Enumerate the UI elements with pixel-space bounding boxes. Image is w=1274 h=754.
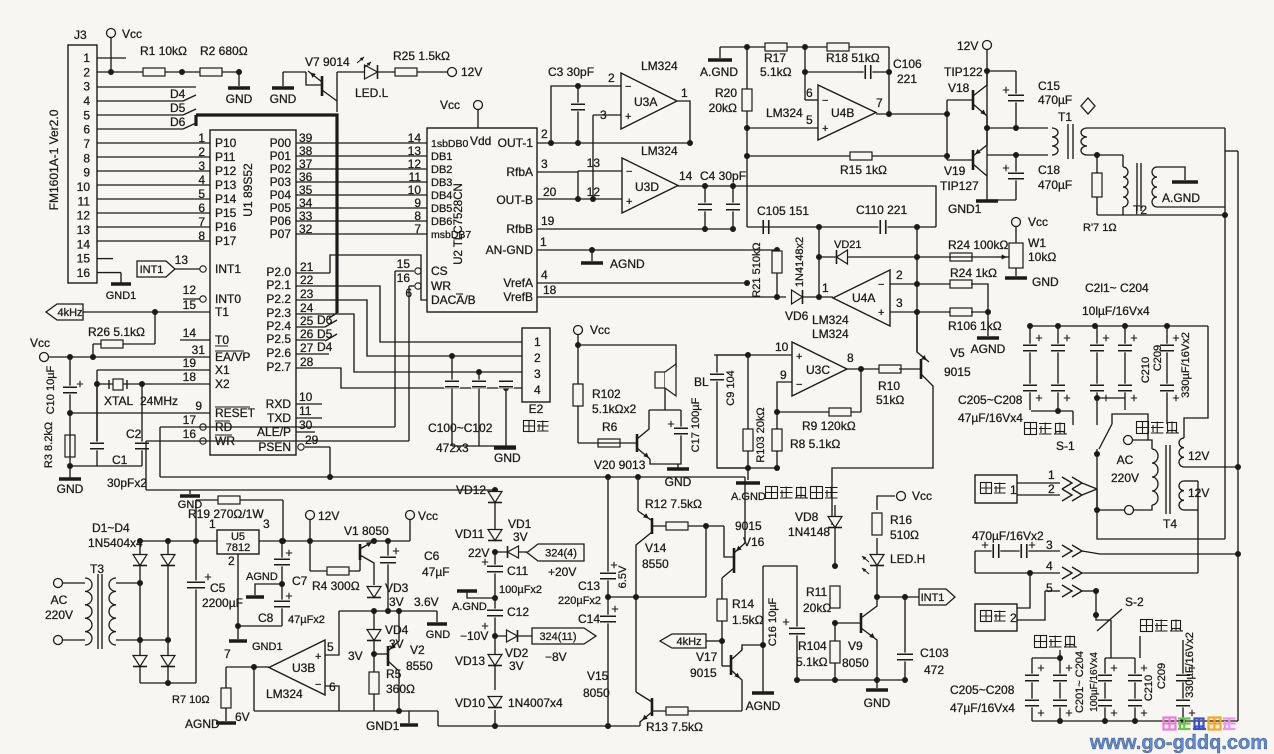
svg-text:GND: GND [226, 92, 253, 106]
ground GND (R3) [59, 477, 81, 481]
svg-text:4kHz: 4kHz [57, 307, 82, 319]
svg-text:1: 1 [822, 281, 829, 295]
label chassis note [766, 487, 778, 499]
svg-text:DB6: DB6 [431, 216, 452, 228]
flag 324(4) +20V [527, 544, 584, 561]
svg-text:6: 6 [806, 86, 813, 100]
svg-text:P05: P05 [270, 201, 292, 215]
capacitor C15 470uF [987, 70, 1016, 72]
svg-text:324(11): 324(11) [539, 631, 576, 643]
svg-text:24MHz: 24MHz [140, 394, 178, 408]
wire row5 to S-2 [1082, 590, 1096, 592]
chevron row5 [1062, 585, 1072, 597]
diode VD2 3V [495, 635, 532, 637]
svg-text:AC: AC [51, 593, 68, 607]
svg-text:20kΩ: 20kΩ [709, 101, 737, 115]
ground A.GND (T2) [1157, 167, 1185, 180]
resistor R25 1.5k [395, 68, 417, 76]
svg-text:R18 51kΩ: R18 51kΩ [826, 51, 880, 65]
svg-text:P2.4: P2.4 [266, 319, 291, 333]
connector electrode-1 [975, 475, 1017, 503]
svg-text:GND1: GND1 [948, 202, 982, 216]
wire WR link [408, 286, 410, 441]
svg-text:U4B: U4B [831, 106, 854, 120]
svg-text:U2 TLC7528CN: U2 TLC7528CN [453, 183, 465, 265]
svg-text:9015: 9015 [735, 519, 762, 533]
svg-text:+: + [796, 351, 802, 363]
transistor V7 9014 [306, 72, 322, 85]
svg-text:DB5: DB5 [431, 203, 452, 215]
wire right margin vertical B [1225, 150, 1238, 152]
wire BL top feed [578, 345, 676, 368]
svg-text:16: 16 [77, 266, 91, 280]
wire J3 pin15 pin16 [97, 258, 113, 260]
svg-text:V20 9013: V20 9013 [594, 458, 646, 472]
svg-text:10lµF/16Vx4: 10lµF/16Vx4 [1082, 304, 1150, 318]
diode VD6 [792, 290, 803, 304]
chevron row4 [1062, 567, 1072, 579]
wire V15 collector [635, 597, 637, 692]
wire rail 490 [146, 489, 495, 491]
ground GND (V9) [876, 680, 878, 688]
svg-text:A.GND: A.GND [452, 601, 487, 613]
label big-heat (lower) [1141, 620, 1153, 632]
svg-text:8: 8 [414, 209, 421, 223]
connector electrode-2 [975, 604, 1017, 631]
svg-text:18: 18 [543, 283, 557, 297]
svg-text:C103: C103 [920, 646, 949, 660]
svg-text:C205~C208: C205~C208 [950, 683, 1015, 697]
wire right margin vertical A [1224, 128, 1226, 539]
wire U3D output row [678, 186, 936, 227]
svg-text:15: 15 [183, 298, 197, 312]
wire electrode1 row2 [1017, 494, 1060, 496]
svg-text:X1: X1 [215, 363, 230, 377]
svg-text:5: 5 [83, 108, 90, 122]
resistor R106 1k [950, 308, 972, 316]
svg-text:C16 10µF: C16 10µF [767, 597, 779, 646]
svg-text:3V: 3V [389, 595, 404, 609]
svg-text:P10: P10 [215, 136, 237, 150]
capacitor C2 30pF [141, 384, 143, 466]
svg-text:14: 14 [679, 169, 693, 183]
svg-text:330µF/16Vx2: 330µF/16Vx2 [1184, 632, 1196, 698]
svg-text:CS: CS [431, 264, 448, 278]
capacitor C12 [494, 598, 496, 636]
svg-text:3V: 3V [509, 659, 524, 673]
svg-text:9015: 9015 [944, 365, 971, 379]
transistor V5 9015 [920, 359, 923, 379]
svg-text:47µF/16Vx4: 47µF/16Vx4 [950, 701, 1015, 715]
wire J3 pin2 net Vcc/R1/R2 [97, 71, 239, 73]
svg-text:5.1kΩ: 5.1kΩ [760, 65, 792, 79]
svg-text:P00: P00 [270, 136, 292, 150]
svg-text:D6: D6 [317, 313, 333, 327]
svg-text:AGND: AGND [971, 342, 1006, 356]
wire U4B output [876, 113, 947, 115]
svg-text:7: 7 [876, 96, 883, 110]
transistor V9 8050 [860, 613, 863, 633]
ground AGND (V17) [752, 691, 774, 695]
wire R17/R18 row [720, 46, 889, 48]
svg-text:2: 2 [83, 65, 90, 79]
svg-text:9015: 9015 [690, 666, 717, 680]
capacitor C13 220uFx2 [607, 477, 609, 726]
flag INT1 [137, 261, 175, 277]
resistor R20 20k [746, 47, 748, 227]
svg-text:31: 31 [192, 343, 206, 357]
svg-text:26: 26 [300, 327, 314, 341]
svg-text:R104: R104 [798, 639, 827, 653]
svg-text:C1: C1 [112, 453, 128, 467]
svg-text:14: 14 [183, 326, 197, 340]
svg-text:V9: V9 [848, 639, 863, 653]
svg-text:3: 3 [1046, 538, 1053, 552]
svg-text:360Ω: 360Ω [386, 682, 415, 696]
capacitor C9 104 [717, 355, 748, 468]
svg-text:1: 1 [681, 86, 688, 100]
chevrons electrode1 [1062, 477, 1072, 489]
wire P2.3 riser to keypad [296, 314, 522, 372]
svg-text:P12: P12 [215, 164, 237, 178]
svg-text:GND: GND [426, 629, 451, 641]
resistor R102 5.1kx2 [573, 384, 583, 406]
resistor R1 10k [143, 68, 165, 76]
capacitor C100 [449, 353, 455, 359]
svg-text:J3: J3 [74, 28, 87, 42]
svg-text:LM324: LM324 [812, 313, 849, 327]
wire X1 branch [96, 370, 98, 443]
svg-text:AC: AC [1117, 453, 1134, 467]
wire big-heat contact down [1139, 636, 1141, 658]
svg-text:T0: T0 [215, 333, 229, 347]
svg-text:P15: P15 [215, 206, 237, 220]
wire RD row [200, 426, 395, 428]
svg-text:C105 151: C105 151 [757, 204, 809, 218]
diamond symbol [1081, 98, 1095, 114]
svg-text:1: 1 [209, 517, 216, 531]
svg-text:4: 4 [1046, 559, 1053, 573]
svg-text:C6: C6 [424, 549, 440, 563]
svg-text:X2: X2 [215, 377, 230, 391]
wire RD rail riser [159, 427, 161, 477]
ground GND1 (V19) [987, 176, 1016, 200]
svg-text:100µFx2: 100µFx2 [499, 584, 542, 596]
svg-text:C210: C210 [1143, 675, 1155, 701]
svg-text:DB4: DB4 [431, 190, 452, 202]
svg-text:T4: T4 [1163, 517, 1177, 531]
svg-text:9: 9 [195, 399, 202, 413]
power Vcc (beeper) [574, 326, 583, 335]
wire P2.2 riser to keypad [296, 300, 522, 356]
svg-text:RXD: RXD [266, 397, 292, 411]
ground GND (3.6V) [436, 611, 438, 622]
svg-text:R24 1kΩ: R24 1kΩ [950, 266, 997, 280]
svg-text:Vcc: Vcc [122, 27, 142, 41]
svg-text:R20: R20 [715, 86, 737, 100]
svg-text:RfbA: RfbA [506, 165, 533, 179]
capacitor C106 221 [888, 47, 890, 114]
wire electrode1 row1 [1017, 482, 1060, 484]
svg-text:C2: C2 [126, 427, 142, 441]
svg-text:7: 7 [414, 222, 421, 236]
wire R8/R103 bottom rail [717, 467, 777, 469]
svg-text:R106 1kΩ: R106 1kΩ [948, 319, 1002, 333]
svg-text:VD1: VD1 [508, 517, 532, 531]
svg-text:29: 29 [305, 433, 319, 447]
power Vcc [107, 29, 116, 38]
svg-text:VD6: VD6 [785, 309, 809, 323]
svg-text:C106: C106 [893, 57, 922, 71]
wire V5 collector [832, 374, 933, 525]
capacitor C4 30pF x2 [704, 186, 706, 229]
wire T2 bottom to margin [1123, 214, 1225, 216]
svg-text:GND1: GND1 [366, 719, 400, 733]
svg-text:WR: WR [431, 279, 451, 293]
svg-text:7812: 7812 [226, 542, 250, 554]
svg-text:GND: GND [1032, 275, 1059, 289]
wire BL bottom [664, 388, 666, 410]
svg-text:LED.L: LED.L [355, 86, 389, 100]
svg-text:470µF: 470µF [1038, 178, 1072, 192]
ground GND1 (C8) [238, 625, 282, 627]
wire feedback vertical [916, 227, 918, 352]
op-amp U4A [833, 270, 890, 326]
wire 4kHz/R26 riser [152, 309, 158, 315]
svg-text:V15: V15 [587, 669, 609, 683]
svg-text:16: 16 [183, 427, 197, 441]
wire row4 riser [1197, 481, 1199, 573]
diode D4 [161, 656, 175, 667]
svg-text:R12 7.5kΩ: R12 7.5kΩ [645, 497, 702, 511]
svg-text:3.6V: 3.6V [414, 595, 439, 609]
svg-text:GND: GND [494, 451, 521, 465]
svg-text:1N5404x4: 1N5404x4 [88, 536, 143, 550]
svg-text:6.5V: 6.5V [617, 565, 629, 588]
svg-text:TXD: TXD [267, 411, 291, 425]
svg-text:R16: R16 [890, 513, 912, 527]
svg-text:VD13: VD13 [455, 654, 485, 668]
svg-text:C7: C7 [292, 574, 308, 588]
led LED.H [876, 538, 878, 597]
svg-text:TIP122: TIP122 [944, 65, 983, 79]
ground GND (V20) [650, 459, 678, 464]
svg-text:51kΩ: 51kΩ [876, 393, 904, 407]
wire RfbA to U3D pin13 [577, 171, 579, 200]
svg-text:msbDB7: msbDB7 [431, 229, 471, 241]
flag 324(11) -8V [532, 628, 596, 644]
wire J3 pin6 D6 [97, 128, 183, 130]
svg-text:14: 14 [408, 131, 422, 145]
svg-text:P2.3: P2.3 [266, 306, 291, 320]
wire T1 primary bottom [987, 154, 1048, 156]
wire U3B output [226, 666, 269, 668]
ground AGND (AN-GND) [589, 247, 595, 253]
svg-text:A.GND: A.GND [731, 491, 766, 503]
svg-text:U3C: U3C [806, 363, 830, 377]
wire bridge bottom rail [140, 682, 196, 684]
resistor R27 1ohm [1096, 155, 1098, 215]
wire row4 to T4 [1082, 572, 1198, 574]
svg-text:A.GND: A.GND [1162, 191, 1200, 205]
svg-text:18: 18 [183, 370, 197, 384]
svg-text:1: 1 [1010, 483, 1017, 497]
dac U2 TLC7528CN [427, 128, 537, 312]
crystal XTAL 24MHz [97, 383, 142, 385]
wire cap bank2 top joins [1032, 657, 1060, 659]
svg-text:13: 13 [587, 156, 601, 170]
svg-text:7: 7 [83, 137, 90, 151]
capacitor C8 47uF [281, 584, 283, 626]
svg-text:D5: D5 [317, 327, 333, 341]
svg-text:V1 8050: V1 8050 [344, 524, 389, 538]
svg-text:C201~ C204: C201~ C204 [1074, 651, 1086, 713]
svg-text:510Ω: 510Ω [890, 528, 919, 542]
svg-text:3V: 3V [513, 530, 528, 544]
svg-text:R15 1kΩ: R15 1kΩ [840, 163, 887, 177]
svg-text:19: 19 [541, 214, 555, 228]
svg-text:R21 510kΩ: R21 510kΩ [751, 242, 763, 297]
svg-text:V7 9014: V7 9014 [305, 55, 350, 69]
bus D4-D6 thick [194, 115, 197, 126]
resistor R17 5.1k [765, 43, 787, 51]
svg-text:E2: E2 [529, 402, 544, 416]
svg-text:47µF: 47µF [422, 565, 450, 579]
wire mid rail 6.5V [608, 596, 706, 598]
wire V17 emitter to C16 rail [742, 645, 763, 650]
svg-text:16: 16 [397, 271, 411, 285]
watermark site name [1164, 718, 1176, 730]
svg-text:8550: 8550 [642, 557, 669, 571]
svg-text:C205~C208: C205~C208 [958, 393, 1023, 407]
svg-text:4: 4 [541, 268, 548, 282]
svg-text:T1: T1 [215, 305, 229, 319]
svg-text:1: 1 [540, 235, 547, 249]
wire row3 to margin [1082, 551, 1238, 554]
capacitor C1 30pF [96, 384, 98, 466]
svg-text:1sbDB0: 1sbDB0 [431, 138, 469, 150]
svg-text:1N4007x4: 1N4007x4 [508, 696, 563, 710]
svg-text:R14: R14 [732, 597, 754, 611]
svg-text:C5: C5 [210, 581, 226, 595]
svg-text:1.5kΩ: 1.5kΩ [732, 613, 764, 627]
svg-text:4kHz: 4kHz [676, 636, 701, 648]
svg-text:3: 3 [896, 296, 903, 310]
svg-text:LM324: LM324 [641, 144, 678, 158]
capacitor C16 10uF [762, 566, 764, 692]
resistor R14 1.5k [721, 578, 723, 641]
svg-text:30pFx2: 30pFx2 [107, 476, 147, 490]
svg-text:GND: GND [270, 92, 297, 106]
wire cap bank top rail [1030, 325, 1208, 327]
svg-text:LM324: LM324 [266, 687, 303, 701]
wire P2.7 riser to keypad [296, 368, 522, 388]
svg-text:−: − [796, 379, 802, 391]
svg-text:10: 10 [408, 183, 422, 197]
svg-text:+20V: +20V [548, 565, 576, 579]
svg-text:U1 89S52: U1 89S52 [241, 163, 255, 217]
svg-text:Vcc: Vcc [1028, 215, 1048, 229]
diode VD4 3V [373, 611, 375, 654]
svg-text:U3A: U3A [634, 95, 657, 109]
svg-text:C209: C209 [1152, 345, 1164, 371]
svg-text:A.GND: A.GND [700, 65, 738, 79]
ground GND (keypad) [452, 445, 516, 447]
diode VD10 [488, 697, 502, 708]
svg-text:13: 13 [77, 223, 91, 237]
svg-text:8050: 8050 [583, 686, 610, 700]
svg-text:P06: P06 [270, 214, 292, 228]
svg-text:11: 11 [299, 404, 312, 418]
svg-text:V17: V17 [696, 650, 718, 664]
svg-text:AGND: AGND [246, 571, 278, 583]
svg-text:12V: 12V [461, 65, 482, 79]
svg-text:D6: D6 [170, 115, 186, 129]
ground A.GND (C11/C12) [467, 592, 495, 598]
ground GND (rail) [189, 490, 191, 494]
ground A.GND (R17) [719, 47, 721, 58]
svg-text:27: 27 [300, 341, 314, 355]
svg-text:W1: W1 [1028, 236, 1046, 250]
svg-text:www.go-gddq.com: www.go-gddq.com [1089, 732, 1268, 754]
svg-text:25: 25 [300, 314, 314, 328]
svg-text:P2.2: P2.2 [266, 292, 291, 306]
ground A.GND (R103) [747, 468, 749, 480]
svg-text:C4 30pF: C4 30pF [700, 169, 746, 183]
svg-text:47µF/16Vx4: 47µF/16Vx4 [958, 411, 1023, 425]
svg-text:BL: BL [694, 375, 709, 389]
svg-text:C17 100µF: C17 100µF [690, 397, 702, 452]
svg-text:R9 120kΩ: R9 120kΩ [802, 419, 856, 433]
svg-text:5: 5 [327, 640, 334, 654]
diode VD21 [819, 256, 917, 258]
svg-text:P13: P13 [215, 178, 237, 192]
svg-text:INT1: INT1 [215, 262, 241, 276]
wires U1 P0x to U2 data [426, 142, 428, 144]
wire J3 pin1 [97, 57, 126, 59]
svg-text:PSEN: PSEN [258, 440, 291, 454]
svg-text:GND: GND [864, 696, 891, 710]
svg-text:T3: T3 [90, 562, 104, 576]
svg-text:1: 1 [83, 51, 90, 65]
svg-text:P16: P16 [215, 220, 237, 234]
wire P2.1 riser to keypad [296, 286, 522, 342]
svg-text:R19 270Ω/1W: R19 270Ω/1W [188, 507, 264, 521]
svg-text:P04: P04 [270, 188, 292, 202]
svg-text:P2.7: P2.7 [266, 360, 291, 374]
resistor R26 5.1k [93, 343, 155, 345]
svg-text:9: 9 [414, 196, 421, 210]
svg-text:AN-GND: AN-GND [486, 243, 534, 257]
svg-text:Vcc: Vcc [30, 336, 50, 350]
svg-text:472: 472 [924, 663, 944, 677]
svg-text:10: 10 [775, 340, 789, 354]
svg-text:DB2: DB2 [431, 164, 452, 176]
svg-text:9: 9 [83, 166, 90, 180]
svg-text:V16: V16 [743, 535, 765, 549]
wire pin3-pin12 link [592, 115, 594, 200]
svg-text:OUT-1: OUT-1 [498, 136, 534, 150]
svg-text:AGND: AGND [746, 699, 781, 713]
wire WR row [200, 440, 409, 442]
resistor R18 51k [827, 43, 849, 51]
ground AGND (R106) [987, 312, 989, 336]
diode D2 [167, 541, 169, 683]
svg-text:12: 12 [183, 283, 197, 297]
capacitor C105 151 [762, 219, 771, 235]
svg-text:VD21: VD21 [834, 239, 862, 251]
svg-text:3V: 3V [348, 649, 363, 663]
